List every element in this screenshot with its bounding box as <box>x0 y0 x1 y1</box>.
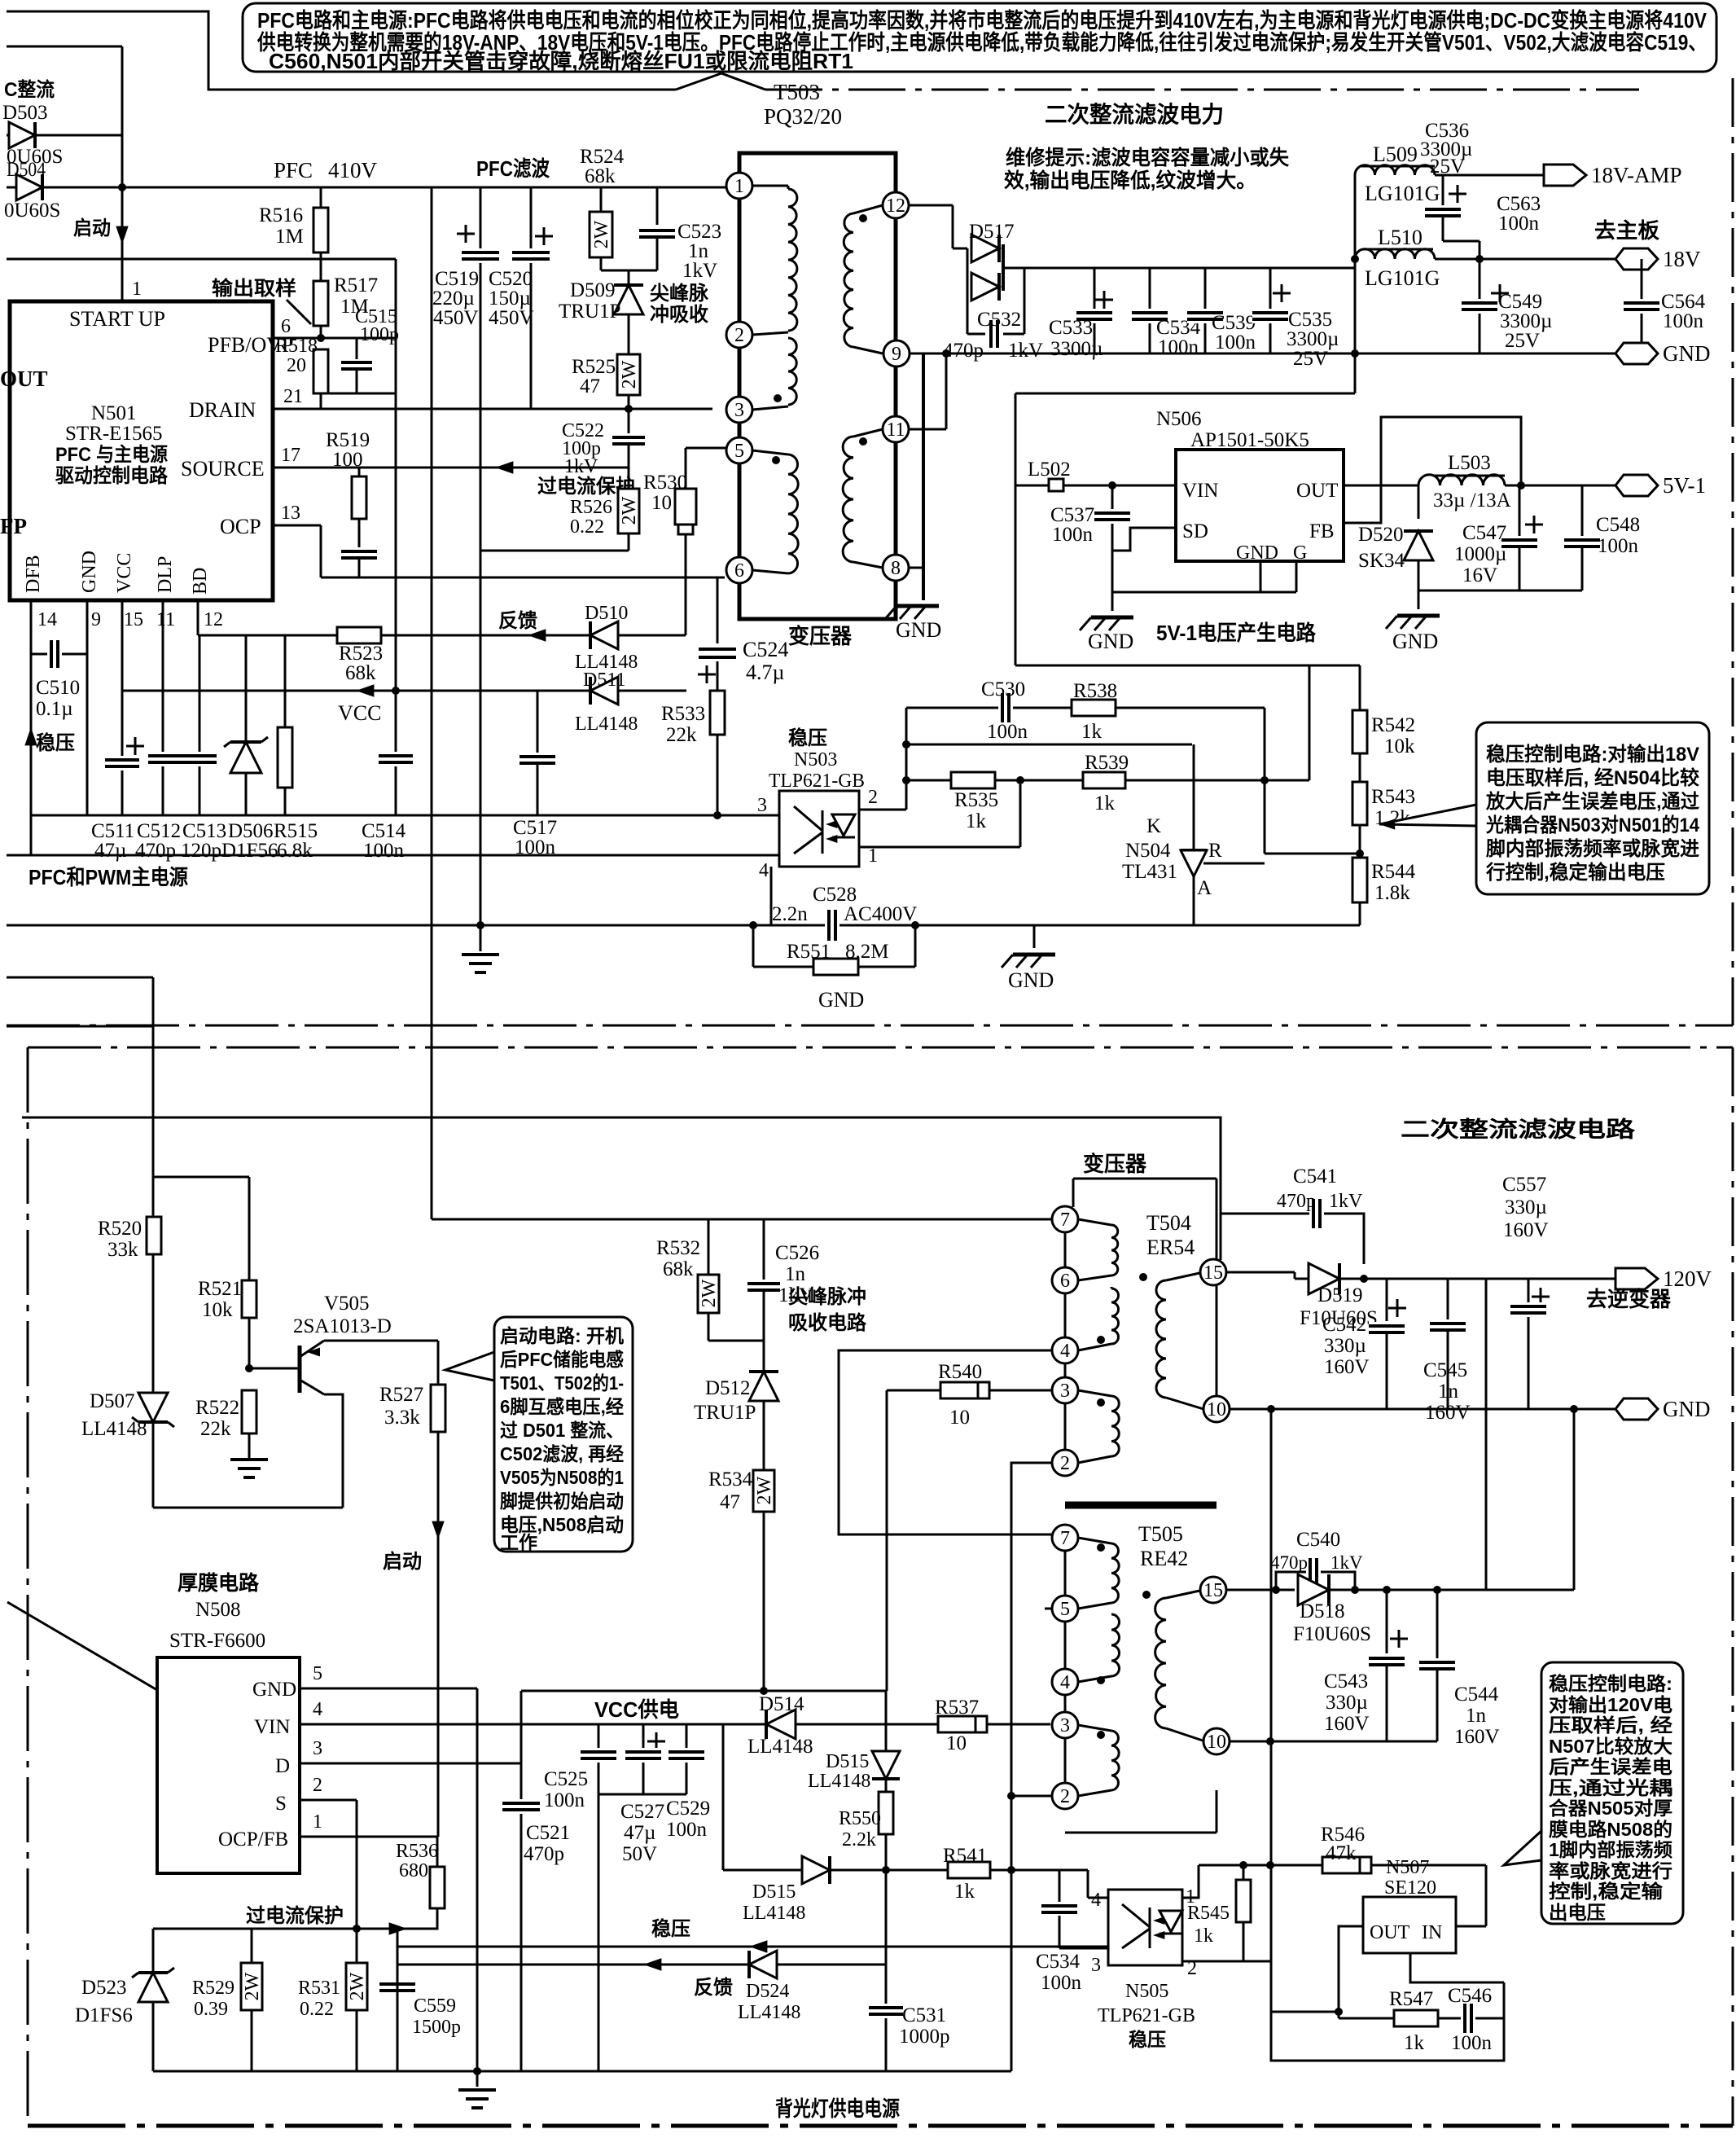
svg-text:OUT: OUT <box>1370 1922 1410 1943</box>
svg-text:1: 1 <box>132 279 142 300</box>
svg-text:R530: R530 <box>643 472 687 494</box>
bus line y1001 <box>30 814 779 817</box>
bottom block top border <box>28 1047 1733 1049</box>
svg-text:稳压: 稳压 <box>1129 2029 1166 2050</box>
bottom block right border <box>1732 1047 1734 2126</box>
svg-text:22k: 22k <box>666 724 697 746</box>
svg-text:1n: 1n <box>1466 1705 1487 1727</box>
capacitor C522 <box>628 409 630 433</box>
svg-text:C533: C533 <box>1049 317 1093 339</box>
svg-text:470p: 470p <box>1270 1552 1308 1573</box>
svg-text:膜电路N508的: 膜电路N508的 <box>1549 1819 1672 1840</box>
svg-text:C530: C530 <box>981 678 1025 700</box>
svg-text:1: 1 <box>734 176 744 197</box>
svg-text:1k: 1k <box>1194 1925 1213 1947</box>
wire pin5 stub <box>686 447 726 450</box>
capacitor C563 <box>1442 175 1444 205</box>
svg-text:C519: C519 <box>435 268 479 290</box>
resistor R525 2W <box>617 354 640 395</box>
capacitor C531 <box>869 2004 903 2018</box>
wire pin2-T504 jog <box>1011 1463 1053 1870</box>
svg-text:450V: 450V <box>433 307 479 329</box>
svg-text:2W: 2W <box>699 1279 720 1307</box>
svg-text:ER54: ER54 <box>1146 1236 1195 1259</box>
resistor R532 2W <box>708 1219 710 1275</box>
svg-text:100n: 100n <box>1215 331 1256 353</box>
svg-text:C502滤波, 再经: C502滤波, 再经 <box>500 1443 624 1464</box>
T504 pin 2 <box>1052 1450 1078 1476</box>
capacitor C525 <box>598 1724 600 2071</box>
svg-text:驱动控制电路: 驱动控制电路 <box>55 464 169 487</box>
svg-text:1kV: 1kV <box>1008 340 1043 362</box>
SD pin jog <box>1112 528 1176 551</box>
svg-text:二次整流滤波电路: 二次整流滤波电路 <box>1401 1117 1636 1142</box>
svg-text:47µ: 47µ <box>624 1822 655 1844</box>
svg-text:2: 2 <box>1060 1453 1070 1474</box>
svg-text:220µ: 220µ <box>432 288 475 310</box>
svg-text:压取样后, 经: 压取样后, 经 <box>1549 1714 1672 1736</box>
svg-text:100n: 100n <box>363 840 405 862</box>
svg-text:工作: 工作 <box>500 1532 537 1553</box>
T503 pin 5 <box>726 437 752 463</box>
wire VCC y848 <box>122 690 686 692</box>
svg-text:LL4148: LL4148 <box>743 1903 805 1924</box>
svg-text:D510: D510 <box>585 603 628 624</box>
svg-text:D504: D504 <box>7 159 46 181</box>
wire S down <box>356 1800 358 1963</box>
svg-text:TL431: TL431 <box>1122 861 1177 883</box>
wire x188 column <box>152 977 155 1508</box>
svg-text:D509: D509 <box>570 279 616 301</box>
svg-text:C546: C546 <box>1448 1985 1492 2007</box>
IC N508 box <box>157 1657 300 1873</box>
diode D510 <box>590 621 618 649</box>
svg-text:尖峰脉: 尖峰脉 <box>650 282 709 305</box>
svg-text:L503: L503 <box>1448 452 1491 474</box>
zener D506 <box>245 635 248 815</box>
svg-text:输出取样: 输出取样 <box>212 277 296 300</box>
svg-text:R534: R534 <box>708 1469 753 1490</box>
wire A drop <box>1264 708 1266 854</box>
svg-text:LL4148: LL4148 <box>81 1418 147 1440</box>
wire 410V column x530 <box>431 187 433 1219</box>
flag 120V <box>1615 1268 1658 1289</box>
svg-text:N507比较放大: N507比较放大 <box>1549 1736 1672 1757</box>
wire R546 row <box>1199 1864 1486 1867</box>
svg-text:PFC和PWM主电源: PFC和PWM主电源 <box>28 865 188 889</box>
svg-text:DLP: DLP <box>155 556 176 593</box>
svg-text:C532: C532 <box>977 309 1021 331</box>
svg-text:2: 2 <box>734 325 744 346</box>
bottom block bottom border <box>28 2124 1733 2128</box>
svg-text:47k: 47k <box>1326 1842 1357 1864</box>
T503 pin 11 <box>883 416 909 442</box>
svg-text:稳压: 稳压 <box>36 731 75 754</box>
capacitor C545 <box>1447 1279 1449 1323</box>
svg-text:470p: 470p <box>943 340 984 362</box>
resistor R518 <box>313 349 328 393</box>
svg-text:去主板: 去主板 <box>1594 218 1659 243</box>
wire 5V gnd row <box>1418 590 1582 592</box>
svg-text:启动: 启动 <box>73 217 111 239</box>
svg-text:C523: C523 <box>677 221 721 243</box>
svg-text:470p: 470p <box>135 840 176 862</box>
svg-text:R521: R521 <box>198 1278 242 1300</box>
svg-text:160V: 160V <box>1454 1726 1500 1748</box>
wire y2530 <box>1271 2012 1504 2061</box>
resistor R517 <box>313 281 328 326</box>
svg-text:V505: V505 <box>324 1293 370 1315</box>
wire R530 col to feedback row <box>685 577 687 635</box>
svg-text:5V-1电压产生电路: 5V-1电压产生电路 <box>1156 621 1317 645</box>
flag GND top <box>1615 343 1658 364</box>
svg-text:GND: GND <box>818 988 864 1012</box>
svg-text:22k: 22k <box>200 1418 231 1440</box>
svg-text:C560,N501内部开关管击穿故障,烧断熔丝FU1或限流电: C560,N501内部开关管击穿故障,烧断熔丝FU1或限流电阻RT1 <box>269 49 853 73</box>
svg-text:6: 6 <box>734 560 744 582</box>
svg-text:TLP621-GB: TLP621-GB <box>769 770 865 792</box>
svg-text:STR-E1565: STR-E1565 <box>65 423 162 445</box>
svg-text:厚膜电路: 厚膜电路 <box>178 1572 260 1595</box>
svg-text:AP1501-50K5: AP1501-50K5 <box>1190 429 1309 451</box>
wire BD pin12 elbow <box>197 600 199 635</box>
svg-text:R524: R524 <box>580 146 625 168</box>
svg-text:0.39: 0.39 <box>194 1999 228 2020</box>
svg-text:15: 15 <box>124 609 143 630</box>
svg-text:C整流: C整流 <box>4 79 55 101</box>
wire R532 C526 join <box>708 1340 764 1342</box>
svg-text:3.3k: 3.3k <box>384 1407 420 1429</box>
svg-text:7: 7 <box>1060 1209 1070 1231</box>
T503 pin 3 <box>726 397 752 423</box>
core bar <box>1065 1502 1217 1509</box>
T505 pin 5 <box>1052 1596 1078 1622</box>
svg-text:GND: GND <box>252 1679 296 1701</box>
diode D507 <box>138 1393 168 1422</box>
svg-text:3: 3 <box>1060 1381 1070 1402</box>
svg-text:C548: C548 <box>1596 514 1640 536</box>
svg-text:K: K <box>1146 815 1161 837</box>
svg-text:放大后产生误差电压,通过: 放大后产生误差电压,通过 <box>1485 790 1699 813</box>
diode D515 upper <box>885 1691 888 1751</box>
svg-text:25V: 25V <box>1505 330 1540 352</box>
wire 反馈 <box>397 1964 763 1966</box>
wire VCC after D514 <box>796 1723 1050 1726</box>
T505 pin5 stub <box>1045 1608 1052 1610</box>
svg-text:C534: C534 <box>1036 1951 1081 1973</box>
svg-text:C520: C520 <box>489 268 533 290</box>
svg-text:C540: C540 <box>1296 1529 1340 1551</box>
svg-text:C542: C542 <box>1322 1314 1366 1336</box>
capacitor C534b <box>1059 1870 1061 1903</box>
svg-text:VCC: VCC <box>114 553 135 593</box>
svg-text:C526: C526 <box>775 1242 819 1264</box>
T503 secondary winding 12-9 <box>853 205 883 213</box>
T504 pin 7 <box>1052 1206 1078 1232</box>
N508 pin5 GND <box>300 1688 477 1690</box>
svg-text:GND: GND <box>1088 630 1133 653</box>
svg-text:R527: R527 <box>379 1384 423 1406</box>
rail to T504 pin7 <box>432 1218 1053 1221</box>
wire B y914 <box>906 744 1192 746</box>
svg-text:R533: R533 <box>661 703 705 725</box>
diode D515 lower <box>802 1856 830 1884</box>
resistor R527 <box>437 1341 440 1385</box>
svg-text:D520: D520 <box>1358 524 1404 546</box>
diode D509 <box>628 270 630 285</box>
svg-text:去逆变器: 去逆变器 <box>1586 1287 1672 1311</box>
ground GND mid <box>1033 925 1036 948</box>
wire x1561 col <box>1270 1409 1273 1961</box>
svg-text:OCP/FB: OCP/FB <box>218 1828 288 1850</box>
resistor R521 <box>242 1280 256 1318</box>
svg-text:1k: 1k <box>1404 2032 1425 2054</box>
svg-text:AC400V: AC400V <box>844 903 917 925</box>
svg-text:VIN: VIN <box>254 1716 290 1738</box>
wire C jog up <box>1309 665 1311 780</box>
svg-text:D511: D511 <box>583 669 625 691</box>
capacitor C526 <box>763 1219 765 1280</box>
svg-text:R516: R516 <box>259 204 303 226</box>
T504 coil 3-2 <box>1078 1390 1111 1396</box>
svg-text:C543: C543 <box>1324 1670 1368 1692</box>
svg-text:TRU1P: TRU1P <box>694 1402 756 1424</box>
svg-text:330µ: 330µ <box>1505 1196 1547 1218</box>
opto N505 box <box>1108 1890 1182 1965</box>
diode D512 <box>763 1341 765 1370</box>
svg-text:2: 2 <box>1060 1786 1070 1807</box>
resistor R540 <box>887 1389 1053 1392</box>
wire input from rectifier <box>7 46 122 48</box>
IC N501 box <box>10 301 273 600</box>
T505 pin 7 <box>1052 1525 1078 1551</box>
svg-text:5V-1: 5V-1 <box>1663 473 1706 498</box>
capacitor C559 <box>379 1980 415 1995</box>
svg-text:PFC: PFC <box>274 158 313 182</box>
T505 pin 3 <box>1052 1712 1078 1738</box>
wire 稳压 <box>397 1946 1108 1948</box>
wire x488 col <box>397 1929 399 2071</box>
svg-text:C535: C535 <box>1288 309 1332 331</box>
capacitor C533 <box>1094 268 1096 353</box>
svg-text:R544: R544 <box>1371 861 1416 883</box>
capacitor C540 <box>1276 1572 1306 1590</box>
svg-text:R542: R542 <box>1371 714 1415 736</box>
resistor R520 <box>147 1217 161 1254</box>
svg-text:1kV: 1kV <box>1330 1552 1363 1573</box>
svg-text:20: 20 <box>287 355 306 376</box>
svg-text:13: 13 <box>281 503 300 524</box>
svg-text:SOURCE: SOURCE <box>181 457 265 481</box>
svg-text:G: G <box>1293 542 1307 564</box>
svg-text:2W: 2W <box>619 360 640 389</box>
wire x1825 col <box>1485 1279 1488 1590</box>
svg-text:1k: 1k <box>966 810 987 832</box>
svg-text:LL4148: LL4148 <box>738 2002 800 2023</box>
wire snubber join <box>601 270 657 272</box>
svg-text:光耦合器N503对N501的14: 光耦合器N503对N501的14 <box>1485 814 1700 836</box>
svg-text:C557: C557 <box>1502 1174 1546 1196</box>
svg-text:18V-AMP: 18V-AMP <box>1591 163 1682 187</box>
wire opto pin3 <box>1059 1947 1108 1950</box>
T503 primary winding 1-2 <box>752 185 788 187</box>
svg-text:R551: R551 <box>787 941 831 963</box>
svg-text:R536: R536 <box>396 1841 438 1862</box>
T504 pin 4 <box>1052 1337 1078 1363</box>
capacitor C514 <box>379 752 413 766</box>
wire opto pin2 <box>1182 1960 1270 1963</box>
inductor L502 <box>1015 485 1176 487</box>
svg-text:D523: D523 <box>81 1977 127 1999</box>
svg-text:C544: C544 <box>1454 1684 1499 1706</box>
resistor R533 <box>710 691 725 735</box>
ground GND transformer <box>896 604 939 608</box>
flag 18V <box>1615 248 1658 270</box>
earth ground x590 <box>480 925 482 951</box>
svg-text:FP: FP <box>0 514 27 538</box>
wire y318 from left <box>7 258 396 261</box>
N508 pin3 D <box>300 1763 521 1765</box>
resistor R516 <box>320 187 322 208</box>
T503 pin 2 <box>726 322 752 348</box>
resistor R530 <box>685 448 687 489</box>
svg-text:5: 5 <box>313 1663 322 1684</box>
T503 pin column left <box>739 199 741 570</box>
svg-text:10k: 10k <box>1384 735 1415 757</box>
wire GND pin9 col <box>86 600 89 815</box>
capacitor C530 <box>998 693 1013 722</box>
svg-text:2W: 2W <box>591 220 612 248</box>
wire 18V rail <box>1435 258 1615 261</box>
annotation box: 120V regulation <box>1541 1662 1683 1924</box>
capacitor on OCP <box>341 547 377 562</box>
svg-text:BD: BD <box>190 568 211 595</box>
resistor R537 <box>938 1716 987 1732</box>
svg-text:100n: 100n <box>666 1819 708 1841</box>
pin 21 DRAIN <box>273 408 712 410</box>
wire D524 right <box>777 1964 886 1966</box>
T504 pin 6 <box>1052 1267 1078 1293</box>
svg-text:47: 47 <box>720 1491 740 1513</box>
svg-text:TLP621-GB: TLP621-GB <box>1098 2005 1195 2026</box>
opto pin4 wire <box>770 867 773 925</box>
svg-text:1kV: 1kV <box>778 1284 813 1306</box>
svg-text:1.8k: 1.8k <box>1374 882 1410 904</box>
emitter wire <box>324 1340 438 1342</box>
svg-text:C521: C521 <box>526 1822 570 1844</box>
svg-text:R540: R540 <box>938 1361 982 1383</box>
svg-text:4: 4 <box>1060 1672 1070 1693</box>
FB loop over L503 <box>1344 417 1521 523</box>
T505 frame bottom <box>1065 1832 1217 1834</box>
capacitor C529 <box>686 1724 688 1794</box>
pin 17 SOURCE <box>273 467 629 469</box>
wire pin10-T505 row <box>1229 1741 1437 1743</box>
svg-text:GND: GND <box>896 618 941 642</box>
svg-text:5: 5 <box>1060 1599 1070 1620</box>
svg-text:LG101G: LG101G <box>1365 182 1440 205</box>
wire x1561 to OUT <box>1270 1961 1273 2012</box>
wire pin11 tie <box>909 428 946 431</box>
svg-text:R545: R545 <box>1187 1903 1230 1924</box>
svg-text:10k: 10k <box>202 1299 233 1321</box>
svg-text:100p: 100p <box>360 324 399 345</box>
svg-text:100n: 100n <box>1158 336 1199 358</box>
svg-text:L502: L502 <box>1028 459 1071 481</box>
svg-text:C541: C541 <box>1293 1166 1337 1188</box>
svg-text:3: 3 <box>1091 1955 1101 1976</box>
resistor R538 <box>1072 700 1116 716</box>
wire startup down <box>437 1432 440 1837</box>
svg-text:C525: C525 <box>544 1768 588 1790</box>
svg-text:LL4148: LL4148 <box>808 1771 870 1792</box>
svg-text:68k: 68k <box>585 165 616 187</box>
svg-text:C559: C559 <box>414 1995 456 2017</box>
svg-text:启动电路: 开机: 启动电路: 开机 <box>500 1325 624 1346</box>
svg-text:68k: 68k <box>663 1258 694 1280</box>
svg-text:150µ: 150µ <box>489 288 531 310</box>
wire OCP loop <box>480 550 629 552</box>
capacitor C527 <box>642 1724 645 1794</box>
diode D519 <box>1309 1263 1339 1294</box>
capacitor C517 <box>537 691 539 753</box>
wire startup vertical <box>121 46 124 301</box>
svg-text:4: 4 <box>313 1699 322 1720</box>
svg-text:1000µ: 1000µ <box>1454 543 1506 565</box>
T504 frame <box>1073 1178 1217 1180</box>
svg-text:D514: D514 <box>759 1693 804 1715</box>
svg-text:1kV: 1kV <box>682 260 717 282</box>
svg-text:C517: C517 <box>513 817 557 839</box>
capacitor C524 <box>717 577 719 643</box>
svg-text:R515: R515 <box>274 820 318 842</box>
svg-text:12: 12 <box>204 609 223 630</box>
diode D520 <box>1418 485 1420 519</box>
svg-text:R547: R547 <box>1389 1988 1433 2010</box>
svg-text:脚提供初始启动: 脚提供初始启动 <box>500 1490 624 1512</box>
svg-text:100n: 100n <box>987 721 1028 743</box>
pin 6 PFB/OVP <box>273 337 321 340</box>
svg-text:2: 2 <box>868 787 878 808</box>
opto N503 box <box>779 791 859 867</box>
svg-text:GND: GND <box>1663 1397 1711 1421</box>
svg-text:R532: R532 <box>656 1237 700 1259</box>
capacitor C534a <box>1149 268 1151 353</box>
svg-text:3300µ: 3300µ <box>1287 328 1339 350</box>
svg-text:47: 47 <box>580 375 600 397</box>
svg-text:GND: GND <box>1392 630 1438 653</box>
svg-text:10: 10 <box>1207 1732 1226 1753</box>
svg-text:0U60S: 0U60S <box>4 200 60 222</box>
wire N507 bottom pin <box>1410 1953 1504 1982</box>
wire opto pin1 <box>1182 1865 1199 1898</box>
svg-text:15: 15 <box>1203 1262 1223 1284</box>
svg-text:T501、T502的1-: T501、T502的1- <box>500 1372 624 1394</box>
capacitor C541 <box>1309 1199 1324 1228</box>
svg-text:470p: 470p <box>1277 1191 1316 1212</box>
top block bottom border <box>7 1025 1733 1027</box>
svg-text:0.1µ: 0.1µ <box>36 698 73 720</box>
svg-text:8.2M: 8.2M <box>845 941 888 963</box>
GND bus 120V <box>1229 1408 1615 1411</box>
capacitor C531 plates redraw <box>869 2004 903 2018</box>
T505 coil 3-2 <box>1078 1725 1111 1731</box>
svg-text:0.22: 0.22 <box>570 516 604 538</box>
capacitor C537 <box>1111 485 1114 611</box>
capacitor C535 <box>1269 268 1272 353</box>
svg-text:D515: D515 <box>752 1881 796 1903</box>
svg-text:R519: R519 <box>326 429 370 451</box>
